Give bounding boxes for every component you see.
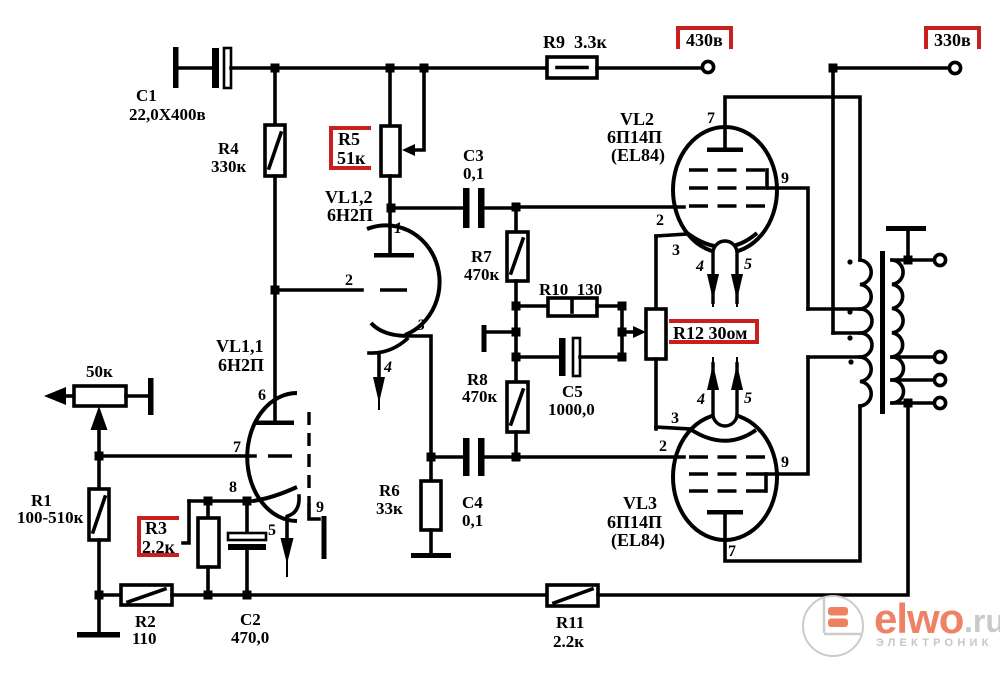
svg-text:R12 30ом: R12 30ом bbox=[673, 323, 747, 343]
transformer core bbox=[880, 251, 885, 414]
junction R3 top bbox=[204, 497, 213, 506]
triode VL1,2 cathode bbox=[371, 323, 408, 336]
label VL3 bbox=[607, 493, 665, 551]
junction R7/R10 node bbox=[512, 302, 521, 311]
ground bar at R10/C5 midpoint bbox=[482, 325, 517, 352]
terminal secondary tap 2 bbox=[934, 351, 945, 362]
svg-text:0,1: 0,1 bbox=[462, 511, 483, 530]
transformer secondary winding bbox=[892, 260, 904, 403]
potentiometer 50к bbox=[74, 362, 154, 415]
pentode VL2 heater arch pins 4,5 bbox=[695, 241, 752, 307]
svg-text:2: 2 bbox=[656, 212, 664, 229]
wire grid VL1,1 bbox=[99, 454, 255, 458]
wire center tap B+ bbox=[833, 331, 860, 335]
svg-text:33к: 33к bbox=[376, 499, 403, 518]
svg-text:VL1,2: VL1,2 bbox=[325, 187, 373, 207]
wire secondary tap 2 bbox=[892, 355, 934, 359]
wire grid VL1,2 bbox=[275, 288, 362, 292]
junction 330v corner bbox=[829, 64, 838, 73]
junction R1 top bbox=[95, 452, 104, 461]
label VL2 bbox=[607, 109, 665, 166]
svg-text:9: 9 bbox=[781, 170, 789, 187]
svg-text:C4: C4 bbox=[462, 493, 483, 512]
svg-text:2.2к: 2.2к bbox=[553, 632, 584, 651]
label R3 red bracket bbox=[139, 518, 177, 557]
svg-text:1000,0: 1000,0 bbox=[548, 400, 595, 419]
triode VL1,1 anode pin6 bbox=[256, 387, 294, 425]
wire feedback column right bbox=[620, 306, 624, 357]
svg-text:elwo: elwo bbox=[874, 595, 964, 642]
terminal 330v bbox=[949, 62, 960, 73]
wire UL tap lower to VL3 screen bbox=[808, 355, 860, 359]
svg-text:R9 3.3к: R9 3.3к bbox=[543, 32, 607, 52]
wire VL1,2 cathode pin3 to C4 node bbox=[408, 317, 431, 457]
transformer primary phase dots bbox=[847, 259, 853, 364]
svg-text:R7: R7 bbox=[471, 247, 492, 266]
pentode VL3 cathode bbox=[690, 429, 756, 441]
svg-text:1: 1 bbox=[394, 220, 402, 237]
svg-text:4: 4 bbox=[383, 359, 392, 376]
wire to VL2 grid bbox=[516, 205, 684, 209]
svg-text:470к: 470к bbox=[464, 265, 500, 284]
svg-text:C1: C1 bbox=[136, 86, 157, 105]
terminal secondary tap 3 bbox=[934, 374, 945, 385]
junction C3 / R7 / VL2 grid bbox=[512, 203, 521, 212]
svg-text:VL3: VL3 bbox=[623, 493, 657, 513]
junction C5/R8 node bbox=[512, 353, 521, 362]
capacitor C4 bbox=[431, 438, 516, 530]
wire R9 to 430v terminal bbox=[597, 66, 701, 70]
svg-text:330к: 330к bbox=[211, 157, 247, 176]
wire to VL3 grid bbox=[516, 455, 684, 459]
svg-text:.ru: .ru bbox=[964, 603, 1000, 639]
svg-text:0,1: 0,1 bbox=[463, 164, 484, 183]
junction bottom left bbox=[95, 591, 104, 600]
svg-text:51к: 51к bbox=[337, 148, 366, 168]
wire 330v rail bbox=[833, 68, 949, 333]
label R12 red bracket bbox=[671, 321, 757, 343]
svg-text:430в: 430в bbox=[686, 30, 723, 50]
triode VL1,1 heater pin5 bbox=[268, 496, 299, 577]
svg-text:4: 4 bbox=[696, 391, 705, 408]
label VL1,2 bbox=[325, 187, 373, 225]
wire top B+ rail bbox=[231, 66, 548, 70]
junction secondary bottom bbox=[904, 399, 913, 408]
triode VL1,1 envelope bbox=[247, 393, 297, 521]
wire secondary tap 3 bbox=[892, 378, 934, 382]
capacitor C3 bbox=[390, 146, 516, 228]
svg-text:9: 9 bbox=[781, 454, 789, 471]
junction top rail at R4 bbox=[271, 64, 280, 73]
svg-text:C2: C2 bbox=[240, 610, 261, 629]
svg-text:3: 3 bbox=[671, 410, 679, 427]
potentiometer R5 bbox=[381, 68, 424, 208]
svg-text:110: 110 bbox=[132, 629, 157, 648]
triode VL1,1 cathode pin8 bbox=[229, 479, 297, 501]
svg-text:6Н2П: 6Н2П bbox=[327, 205, 373, 225]
svg-text:6: 6 bbox=[258, 387, 266, 404]
resistor R3 bbox=[198, 501, 219, 595]
wire secondary bottom tap bbox=[892, 401, 934, 405]
terminal secondary bottom bbox=[934, 397, 945, 408]
svg-text:5: 5 bbox=[744, 256, 752, 273]
svg-text:C3: C3 bbox=[463, 146, 484, 165]
capacitor C5 bbox=[516, 338, 622, 419]
pentode VL2 anode pin7 bbox=[707, 97, 860, 260]
pentode VL3 grids bbox=[659, 438, 767, 491]
svg-text:470к: 470к bbox=[462, 387, 498, 406]
elwo.ru logo bbox=[803, 595, 1000, 656]
wire VL3 cathode to R12 bbox=[656, 410, 690, 429]
svg-text:R10 130: R10 130 bbox=[539, 280, 602, 299]
junction C2 bottom bbox=[243, 591, 252, 600]
svg-text:7: 7 bbox=[707, 110, 715, 127]
junction R3 bottom bbox=[204, 591, 213, 600]
junction C4 right node bbox=[512, 453, 521, 462]
pentode VL3 anode pin7 bbox=[707, 406, 860, 561]
pentode VL3 envelope bbox=[673, 414, 777, 540]
svg-text:R3: R3 bbox=[145, 518, 167, 538]
label leader stub bbox=[183, 501, 189, 543]
resistor R8 bbox=[462, 370, 528, 457]
pentode VL2 grids bbox=[656, 170, 767, 229]
svg-text:(EL84): (EL84) bbox=[611, 145, 665, 166]
svg-text:(EL84): (EL84) bbox=[611, 530, 665, 551]
wire bottom rail bbox=[172, 593, 547, 597]
junction top rail at R5 bbox=[386, 64, 395, 73]
junction top rail at R5 wiper bbox=[420, 64, 429, 73]
junction C2 top bbox=[243, 497, 252, 506]
resistor R10 bbox=[516, 280, 622, 316]
junction VL1,2 grid node bbox=[271, 286, 280, 295]
capacitor C2 bbox=[228, 501, 269, 647]
label 330в red bracket bbox=[926, 28, 979, 50]
wire secondary top tap bbox=[892, 258, 934, 262]
pentode VL2 envelope bbox=[673, 127, 777, 253]
svg-text:7: 7 bbox=[233, 439, 241, 456]
wiper arrow to R12 bbox=[622, 326, 646, 338]
triode VL1,1 grid dash pin7 bbox=[233, 439, 292, 456]
triode VL1,2 envelope bbox=[367, 225, 440, 335]
junction feedback top bbox=[618, 302, 627, 311]
resistor R4 bbox=[211, 68, 285, 176]
svg-text:ЭЛЕКТРОНИК: ЭЛЕКТРОНИК bbox=[876, 637, 992, 649]
svg-text:6П14П: 6П14П bbox=[607, 512, 662, 532]
pentode VL3 screen pin9 wire bbox=[766, 357, 808, 474]
svg-text:6П14П: 6П14П bbox=[607, 127, 662, 147]
svg-text:2: 2 bbox=[345, 272, 353, 289]
junction C4 left node bbox=[427, 453, 436, 462]
svg-text:7: 7 bbox=[728, 543, 736, 560]
svg-text:3: 3 bbox=[416, 317, 425, 334]
wire bottom rail right bbox=[598, 403, 908, 595]
label VL1,1 bbox=[216, 336, 264, 375]
svg-text:VL2: VL2 bbox=[620, 109, 654, 129]
potentiometer R12 bbox=[646, 236, 666, 429]
triode VL1,2 grid dash bbox=[345, 272, 407, 290]
svg-text:9: 9 bbox=[316, 499, 324, 516]
resistor R6 bbox=[376, 457, 441, 553]
pentode VL3 heater arch pins 4,5 bbox=[696, 357, 752, 426]
svg-text:VL1,1: VL1,1 bbox=[216, 336, 264, 356]
resistor R7 bbox=[464, 208, 528, 306]
ground bar below R6 bbox=[411, 553, 451, 558]
svg-text:22,0X400в: 22,0X400в bbox=[129, 105, 206, 124]
wiper arrow 50k bbox=[91, 406, 108, 456]
triode VL1,2 anode pin1 bbox=[374, 204, 414, 258]
svg-text:R5: R5 bbox=[338, 129, 360, 149]
svg-text:2.2к: 2.2к bbox=[142, 537, 176, 557]
junction feedback mid bbox=[618, 328, 627, 337]
resistor R1 bbox=[17, 456, 109, 595]
junction ground bar node bbox=[512, 328, 521, 337]
junction feedback bottom bbox=[618, 353, 627, 362]
triode VL1,2 heater pin4 bbox=[369, 339, 407, 410]
svg-text:R6: R6 bbox=[379, 481, 400, 500]
label 430в red bracket bbox=[678, 28, 731, 50]
svg-text:8: 8 bbox=[229, 479, 237, 496]
svg-text:5: 5 bbox=[744, 390, 752, 407]
resistor R9 bbox=[543, 32, 607, 78]
resistor R2 bbox=[99, 585, 172, 648]
wire VL2 cathode to R12 bbox=[656, 234, 687, 259]
label R5 red bracket bbox=[331, 128, 369, 168]
svg-text:3: 3 bbox=[672, 242, 680, 259]
resistor R11 bbox=[547, 585, 598, 651]
ground bottom left bbox=[77, 595, 120, 638]
terminal secondary top bbox=[934, 254, 945, 265]
wire R4 to VL1 anodes bbox=[273, 176, 277, 422]
svg-text:R11: R11 bbox=[556, 613, 584, 632]
svg-text:4: 4 bbox=[695, 258, 704, 275]
pentode VL2 cathode bbox=[687, 233, 757, 247]
wire UL tap upper to VL2 screen bbox=[808, 307, 860, 311]
triode VL1,1 shield pin9 bbox=[309, 412, 327, 559]
svg-text:6Н2П: 6Н2П bbox=[218, 355, 264, 375]
pentode VL2 screen pin9 wire bbox=[767, 170, 808, 309]
wire R7-R8 column bbox=[514, 306, 518, 382]
wire cathode row bbox=[189, 499, 253, 503]
svg-text:470,0: 470,0 bbox=[231, 628, 269, 647]
svg-text:5: 5 bbox=[268, 522, 276, 539]
junction secondary top bbox=[904, 256, 913, 265]
svg-text:C5: C5 bbox=[562, 382, 583, 401]
svg-text:100-510к: 100-510к bbox=[17, 508, 84, 527]
svg-text:2: 2 bbox=[659, 438, 667, 455]
svg-text:50к: 50к bbox=[86, 362, 113, 381]
ground bar secondary top bbox=[886, 226, 926, 260]
svg-text:R4: R4 bbox=[218, 139, 239, 158]
transformer primary winding bbox=[860, 260, 872, 406]
terminal 430v bbox=[702, 61, 713, 72]
capacitor C1 bbox=[129, 47, 231, 124]
input arrow left bbox=[44, 387, 74, 405]
svg-text:330в: 330в bbox=[934, 30, 971, 50]
